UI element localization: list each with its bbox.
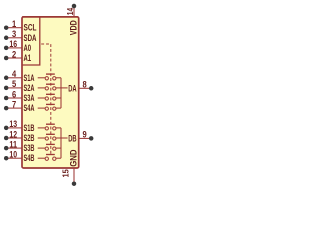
svg-text:16: 16 [9, 39, 17, 49]
svg-text:S1A: S1A [24, 73, 35, 83]
svg-text:S2A: S2A [24, 83, 35, 93]
svg-text:14: 14 [66, 7, 75, 15]
svg-text:4: 4 [12, 69, 16, 79]
svg-text:2: 2 [12, 49, 16, 59]
svg-text:9: 9 [83, 130, 87, 140]
svg-text:13: 13 [9, 119, 17, 129]
svg-text:S1B: S1B [24, 123, 35, 133]
svg-text:SDA: SDA [24, 33, 37, 43]
svg-text:11: 11 [9, 139, 17, 149]
svg-text:S3A: S3A [24, 93, 35, 103]
svg-text:S3B: S3B [24, 143, 35, 153]
svg-text:12: 12 [9, 129, 17, 139]
svg-text:A1: A1 [24, 53, 32, 63]
svg-text:10: 10 [9, 150, 17, 160]
svg-text:15: 15 [61, 169, 70, 178]
svg-text:S4A: S4A [24, 103, 35, 113]
svg-text:8: 8 [83, 80, 87, 90]
svg-text:SCL: SCL [24, 23, 37, 33]
svg-text:7: 7 [12, 99, 16, 109]
svg-text:VDD: VDD [69, 20, 79, 35]
svg-text:A0: A0 [24, 43, 32, 53]
svg-text:DA: DA [68, 83, 77, 93]
svg-text:1: 1 [12, 19, 16, 29]
svg-text:S2B: S2B [24, 133, 35, 143]
svg-text:DB: DB [68, 133, 77, 143]
svg-text:GND: GND [69, 149, 79, 167]
svg-text:3: 3 [12, 29, 16, 39]
svg-text:5: 5 [12, 79, 16, 89]
svg-text:6: 6 [12, 89, 16, 99]
svg-text:S4B: S4B [24, 153, 35, 163]
